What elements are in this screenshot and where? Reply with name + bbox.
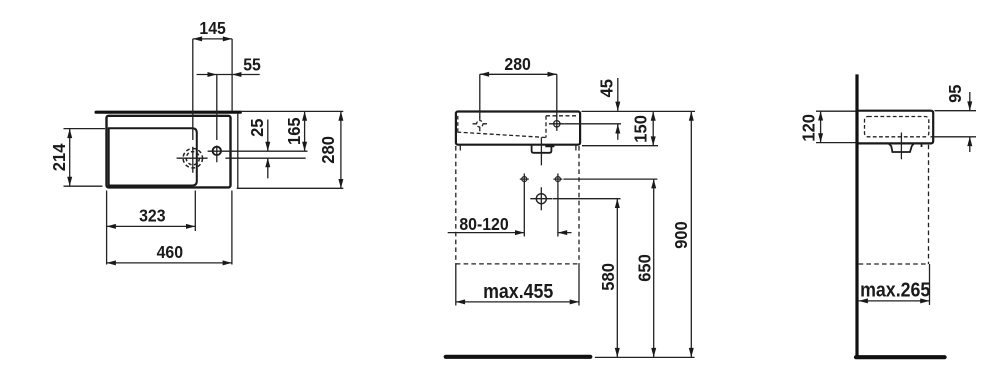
- trap front: [532, 145, 555, 153]
- drain dashed circle inner: [186, 152, 199, 165]
- 145 arrows: [193, 36, 202, 41]
- drain axis line: [540, 138, 542, 166]
- dim 145 line: [193, 38, 232, 40]
- max455 dim line: [456, 301, 579, 303]
- basin rim front: [456, 112, 580, 145]
- trap side: [889, 144, 922, 152]
- mount cross left: [520, 174, 529, 237]
- drain crosshair vertical + ext up to 145 dim: [192, 39, 194, 173]
- dashed bowl side: [865, 117, 929, 137]
- 165 arrows: [302, 111, 307, 120]
- dashed vertical from basin right: [928, 145, 930, 264]
- texts right view: [798, 84, 965, 302]
- tap cross right: [549, 116, 564, 131]
- svg-text:580: 580: [597, 263, 618, 291]
- svg-text:323: 323: [139, 206, 165, 226]
- dashed bowl right vertical: [545, 116, 547, 138]
- rim top ext right: [582, 110, 696, 112]
- svg-text:95: 95: [944, 84, 965, 103]
- rim bottom ext right: [582, 145, 658, 147]
- wall line: [96, 111, 240, 114]
- svg-text:145: 145: [199, 18, 225, 38]
- ext line C (right end of 145): [231, 39, 233, 111]
- dim 120: [820, 111, 822, 142]
- basin rim: [107, 116, 231, 188]
- 25 arrows: [265, 142, 270, 151]
- dim 580: [616, 199, 618, 358]
- 45 dim segs: [617, 78, 619, 140]
- svg-text:max.455: max.455: [483, 281, 553, 303]
- top ext right (rim top): [240, 110, 343, 112]
- svg-text:280: 280: [318, 136, 339, 164]
- max265 arrows: [859, 298, 868, 303]
- 55 arrows (outside): [208, 72, 217, 77]
- dim 323 line: [107, 225, 196, 227]
- drain crosshair horizontal: [177, 157, 208, 159]
- svg-text:max.265: max.265: [860, 279, 930, 301]
- dim 55 line: [197, 74, 260, 76]
- svg-text:150: 150: [630, 115, 651, 143]
- dashed bowl left vertical: [457, 116, 459, 132]
- mount ext right: [563, 178, 657, 180]
- 80-120 dim line: [448, 232, 572, 234]
- tap vertical ext from 55 dim down: [216, 75, 218, 163]
- dim 280 line left view: [340, 111, 342, 188]
- floor thick middle: [446, 355, 591, 359]
- svg-text:120: 120: [798, 114, 819, 142]
- 80-120 arrows: [515, 230, 524, 235]
- svg-text:900: 900: [670, 221, 691, 249]
- dashed horizontal near floor: [859, 263, 929, 265]
- wall line side: [855, 74, 858, 356]
- 280 arrows: [338, 111, 343, 120]
- 460 arrows: [107, 260, 116, 265]
- svg-text:45: 45: [596, 79, 617, 98]
- 95 ext lines: [931, 111, 977, 137]
- 323/460 ext lines: [107, 191, 232, 265]
- max455 arrows: [456, 299, 465, 304]
- dashed box below basin: [456, 146, 579, 264]
- 120 ext lines: [816, 111, 856, 142]
- svg-text:80-120: 80-120: [459, 214, 508, 234]
- arrows right view: [818, 101, 972, 303]
- 120 arrows: [818, 111, 823, 120]
- 150 arrows: [651, 111, 656, 120]
- dim 165 line: [304, 111, 306, 151]
- 900 arrows: [689, 111, 694, 120]
- floor thick side: [856, 355, 945, 359]
- arrows left view: [67, 36, 343, 265]
- solid exts below dashed box: [456, 264, 579, 306]
- solid ext below dash: [929, 264, 931, 305]
- drain dashed circle outer: [183, 149, 202, 168]
- drain cross: [530, 187, 552, 210]
- 95 arrows: [967, 101, 972, 110]
- basin profile: [857, 111, 933, 144]
- svg-text:55: 55: [243, 55, 261, 75]
- drain ext right: [553, 198, 621, 200]
- 214 arrows: [67, 129, 72, 138]
- dim 900: [690, 111, 692, 357]
- floor thin ext: [595, 356, 695, 358]
- 280 ext lines: [480, 74, 557, 117]
- trap axis: [900, 133, 902, 160]
- dim 25 line segs: [267, 120, 269, 179]
- dashed bowl top right horizontal: [546, 115, 579, 117]
- 650 arrows: [651, 179, 656, 188]
- tap crosshair h + ext right: [208, 150, 308, 152]
- ext line D (right of basin below wall): [237, 114, 239, 189]
- ticks below basin: [460, 146, 576, 151]
- svg-text:214: 214: [48, 143, 69, 171]
- dim 150: [652, 111, 654, 145]
- 580 arrows: [615, 199, 620, 208]
- 323 arrows: [107, 224, 116, 229]
- bottom ext right (rim bottom): [237, 187, 344, 189]
- dim 214 line: [69, 129, 71, 186]
- tap hole circle: [213, 147, 221, 155]
- texts left view: [48, 18, 338, 262]
- mount cross right: [553, 174, 562, 237]
- 214 ext lines: [64, 129, 106, 187]
- 95 dim segs: [969, 92, 971, 152]
- svg-text:460: 460: [157, 242, 183, 262]
- dim 650: [653, 179, 655, 357]
- max265 dim line: [859, 300, 930, 302]
- tap ext right: [564, 123, 621, 125]
- svg-text:165: 165: [283, 117, 304, 145]
- inner bowl: [109, 128, 197, 185]
- tap cross left (dashed optional): [473, 116, 487, 131]
- svg-text:25: 25: [246, 118, 267, 137]
- texts middle view: [459, 54, 691, 303]
- svg-text:280: 280: [504, 54, 530, 74]
- arrows middle view: [456, 72, 694, 357]
- drain ext right: [225, 157, 305, 159]
- dim 460 line: [107, 262, 232, 264]
- dim 280 line: [480, 73, 557, 75]
- dashed bowl diagonal: [457, 132, 546, 137]
- 280 arrows: [480, 72, 489, 77]
- 45 arrows: [615, 102, 620, 111]
- svg-text:650: 650: [634, 254, 655, 282]
